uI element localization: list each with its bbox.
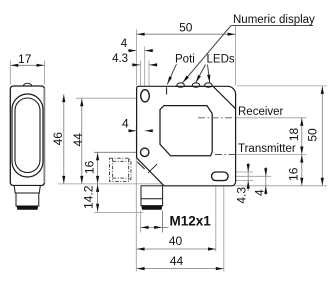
svg-text:Numeric display: Numeric display [233,14,315,26]
svg-text:4.3: 4.3 [235,187,249,204]
svg-text:50: 50 [179,20,193,34]
svg-text:17: 17 [18,52,32,66]
svg-text:44: 44 [170,254,184,268]
svg-text:4: 4 [253,189,267,196]
svg-text:46: 46 [51,132,65,146]
svg-text:50: 50 [306,128,320,142]
svg-text:Transmitter: Transmitter [238,143,296,155]
svg-text:4.3: 4.3 [112,53,128,65]
svg-text:40: 40 [169,234,183,248]
svg-text:4: 4 [122,117,129,131]
svg-text:18: 18 [287,128,301,142]
svg-text:16: 16 [82,160,96,174]
svg-text:LEDs: LEDs [207,54,235,66]
svg-text:44: 44 [71,133,85,147]
svg-text:14.2: 14.2 [82,185,96,209]
svg-text:M12x1: M12x1 [170,213,212,228]
svg-text:Receiver: Receiver [238,106,284,118]
svg-text:4: 4 [121,38,128,50]
svg-text:16: 16 [286,167,300,181]
svg-text:Poti: Poti [175,54,195,66]
